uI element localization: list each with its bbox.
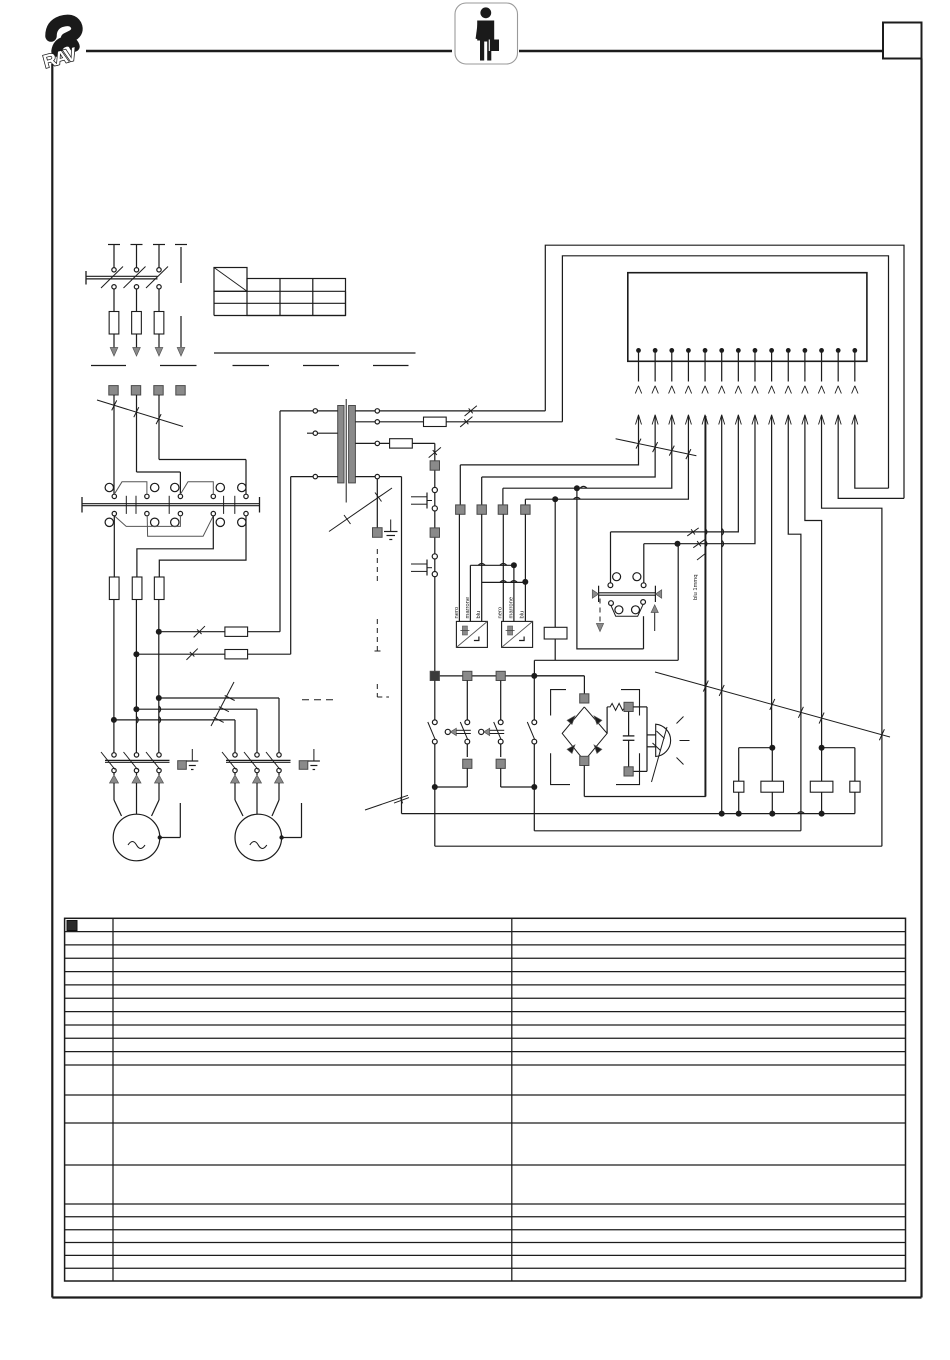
arrow to terminals x=181 — [177, 348, 185, 357]
supply line L2 — [131, 244, 143, 246]
outer loop wire — [545, 245, 904, 498]
contactor bottom links — [114, 516, 180, 527]
control board connector CN1 — [628, 273, 867, 362]
svg-text:nero: nero — [498, 607, 504, 619]
primary feed vertical N — [290, 477, 292, 655]
harness arrow 1 — [636, 415, 639, 425]
motor2 feed L3 — [159, 697, 279, 699]
wire pin13 — [838, 416, 904, 498]
harness arrow 3 — [669, 415, 672, 425]
top right revision box — [883, 23, 922, 59]
harness arrow 9 — [769, 415, 772, 425]
bus terminal dark — [430, 671, 439, 680]
pushbutton SB4 — [533, 679, 535, 721]
secondary wire with fuse FU9 — [355, 421, 423, 423]
reversing contactor K1/K2 — [82, 503, 260, 505]
pushbutton SB3 — [500, 681, 502, 721]
pin 10 — [786, 348, 791, 353]
motor M2 PE wire — [279, 835, 283, 839]
data grid table — [214, 268, 247, 292]
pin 14 — [852, 348, 857, 353]
chain terminal square A — [430, 461, 439, 470]
limit switch top wires — [610, 532, 612, 583]
relay coil K5b — [850, 781, 860, 792]
fuse FU5 — [132, 577, 142, 600]
transformer primary wires — [280, 410, 338, 412]
contact SP2 — [432, 554, 437, 559]
chain terminal square B — [430, 528, 439, 537]
svg-text:blu 1mmq: blu 1mmq — [693, 575, 699, 600]
rectifier enclosure brackets — [551, 690, 566, 716]
rectifier bottom rail — [584, 796, 706, 798]
person icon plate — [455, 3, 518, 64]
bus to rectifier — [534, 675, 584, 677]
arrow to terminals x=136.5 — [133, 348, 141, 357]
svg-text:marrone: marrone — [508, 597, 514, 619]
secondary wire 24V top — [355, 410, 545, 412]
RAV logo — [41, 20, 80, 72]
pressure switch chain wire — [434, 443, 436, 676]
sensor B2 wires — [502, 514, 504, 621]
harness arrow 2 — [652, 415, 655, 425]
limit switch down arrow — [599, 599, 601, 623]
motor1 contactor KM1 — [105, 759, 170, 761]
page border left — [51, 64, 53, 1298]
transformer TR windings — [338, 406, 344, 483]
primary feed vertical L — [279, 411, 281, 632]
button return links — [432, 784, 438, 790]
fuse FU1 — [109, 312, 119, 335]
wire from node D down to relay K4 — [554, 499, 556, 627]
rectifier terminal top — [580, 694, 589, 703]
fuse FU2 — [132, 312, 142, 335]
transformer TR core — [345, 399, 347, 503]
relay K4 return wires — [534, 659, 678, 661]
wires below terminals — [113, 395, 115, 494]
secondary wire with fuse FU10 — [355, 442, 389, 444]
wire pin4 to terminal D — [525, 416, 688, 499]
svg-text:blu: blu — [520, 611, 526, 619]
lamp HL1 — [647, 734, 656, 736]
return bus low — [435, 845, 882, 847]
motor M1 PE wire — [158, 835, 162, 839]
wire pin6 — [721, 416, 723, 814]
sensor B1 wires — [458, 514, 460, 621]
capacitor C1 — [628, 712, 630, 736]
relay coil K4 — [544, 627, 567, 639]
wire pin12 — [822, 416, 882, 846]
enclosure dash pushbuttons — [375, 650, 384, 652]
0V bus bottom — [402, 813, 855, 815]
wire hops at motor feed crossings — [136, 717, 138, 724]
relay K5 node — [819, 745, 825, 751]
control bus 24V — [435, 675, 585, 677]
proximity sensor B2 — [502, 621, 533, 647]
relay coil K5a — [810, 781, 833, 792]
supply line L3 — [153, 244, 165, 246]
bridge rectifier VD1 — [562, 707, 607, 761]
pin 2 — [653, 348, 658, 353]
rectifier terminal bottom — [580, 756, 589, 765]
wire pin11 — [805, 416, 822, 748]
cable marker motor2 feed — [211, 682, 234, 726]
wire pin1 to terminal A — [460, 416, 638, 465]
secondary 0V wire — [355, 476, 401, 478]
wire pin2 to terminal B — [482, 416, 655, 477]
cable marker pins 1-4 — [616, 439, 697, 456]
pushbutton SB1 — [434, 681, 436, 721]
phase wires down to motor contactor — [158, 600, 160, 755]
harness arrow 6 — [719, 415, 722, 425]
page border right — [920, 59, 922, 1298]
pin 3 — [669, 348, 674, 353]
wire from node C down — [577, 488, 644, 649]
reference line — [214, 352, 416, 354]
motor M1 — [113, 783, 115, 800]
legend bullet — [67, 921, 77, 931]
contactor top links — [114, 482, 147, 494]
harness arrow 8 — [752, 415, 755, 425]
pin 12 — [819, 348, 824, 353]
motor2 feed L2 — [136, 708, 257, 710]
SB1 return down — [434, 787, 436, 846]
wire pin10 — [788, 416, 801, 831]
cable marker diagonal — [97, 400, 183, 427]
pin 11 — [803, 348, 808, 353]
junction nodes on phase wires — [156, 629, 162, 635]
harness arrow 12 — [819, 415, 822, 425]
control feed line with fuse FU8 — [136, 653, 225, 655]
limit switch bottom exit — [643, 616, 645, 649]
fuse FU4 — [109, 577, 119, 600]
wire pin3 to terminal C — [503, 416, 672, 488]
resistor R1 — [606, 707, 608, 734]
harness arrow 11 — [802, 415, 805, 425]
sensor terminals X2 — [456, 505, 465, 514]
pin 6 — [719, 348, 724, 353]
supply line N (broken) — [175, 244, 187, 246]
motor2 contactor KM2 — [226, 759, 291, 761]
pushbutton SB2 — [466, 681, 468, 721]
control feed line with fuse FU7 — [159, 631, 225, 633]
relay coil K3b — [761, 781, 784, 792]
harness arrow 14 — [852, 415, 855, 425]
wire pin14 — [855, 416, 889, 488]
mechanical linkage dashed line — [376, 549, 378, 582]
relay coil K3a — [734, 781, 744, 792]
relay K3 node — [769, 745, 775, 751]
wire pin8 to limit switch — [644, 416, 755, 544]
harness arrow 4 — [685, 415, 688, 425]
main disconnect switch QS1 — [86, 275, 158, 277]
capacitor bottom terminal — [624, 767, 633, 776]
motor2 earth terminal — [299, 761, 308, 770]
pin 9 — [769, 348, 774, 353]
lamp cable marker — [652, 727, 668, 782]
bus terminal 2 — [463, 671, 472, 680]
return bus mid — [534, 830, 801, 832]
motor M2 — [234, 783, 236, 800]
phase label dashes — [91, 365, 126, 367]
terminal block X1 — [109, 386, 118, 395]
resistor output terminal — [624, 702, 633, 711]
wire bends to contactor — [137, 471, 181, 473]
legend table — [65, 918, 906, 1281]
pin 5 — [703, 348, 708, 353]
wire pin7 to limit switch — [611, 416, 739, 532]
pin 1 — [636, 348, 641, 353]
pin 13 — [836, 348, 841, 353]
page border bottom — [52, 1296, 921, 1298]
fuse FU3 — [154, 312, 164, 335]
long cable marker diagonal — [655, 672, 890, 737]
limit switch assembly SQ — [613, 573, 621, 581]
proximity sensor B1 — [456, 621, 487, 647]
contact SP1 — [432, 487, 437, 492]
supply line L1 — [108, 244, 120, 246]
contactor exits to fuses — [113, 516, 115, 577]
harness arrow 5 — [702, 415, 705, 425]
svg-text:marrone: marrone — [465, 597, 471, 619]
fuse FU6 — [154, 577, 164, 600]
bus terminal 3 — [496, 671, 505, 680]
harness arrow 7 — [735, 415, 738, 425]
transformer earth branch — [376, 479, 378, 529]
arrow to terminals x=159 — [155, 348, 163, 357]
limit switch up arrow — [654, 613, 656, 632]
harness arrow 13 — [835, 415, 838, 425]
wire pin9 to relay K3 — [771, 416, 773, 748]
motor2 feed L1 — [114, 719, 235, 721]
pin 4 — [686, 348, 691, 353]
pin 8 — [753, 348, 758, 353]
harness arrow 10 — [785, 415, 788, 425]
svg-text:blu: blu — [476, 611, 482, 619]
0V rail vertical — [401, 477, 403, 814]
enclosure dash motor2 — [302, 699, 334, 701]
wire pin5 (blu 1mmq) — [704, 416, 706, 797]
top rule line — [86, 50, 452, 52]
motor1 earth terminal — [178, 761, 187, 770]
arrow to terminals x=114 — [110, 348, 118, 357]
inner loop wire — [562, 256, 888, 488]
svg-text:nero: nero — [454, 607, 460, 619]
pin 7 — [736, 348, 741, 353]
